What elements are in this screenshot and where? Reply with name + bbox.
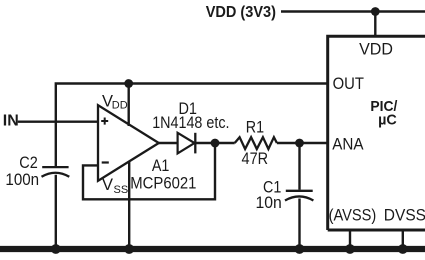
svg-text:MCP6021: MCP6021: [130, 175, 196, 193]
svg-text:V: V: [102, 176, 113, 194]
svg-text:C2: C2: [19, 154, 38, 172]
svg-text:100n: 100n: [5, 171, 39, 189]
svg-text:A1: A1: [152, 157, 170, 175]
svg-text:µC: µC: [378, 112, 397, 129]
svg-text:OUT: OUT: [333, 75, 364, 93]
svg-text:47R: 47R: [242, 150, 269, 168]
svg-text:(AVSS): (AVSS): [329, 207, 377, 225]
svg-text:1N4148 etc.: 1N4148 etc.: [152, 114, 229, 132]
svg-text:R1: R1: [246, 118, 264, 136]
svg-text:VDD (3V3): VDD (3V3): [206, 4, 276, 21]
svg-text:DD: DD: [112, 99, 128, 111]
svg-text:ANA: ANA: [332, 135, 363, 153]
svg-text:IN: IN: [3, 113, 19, 130]
svg-text:SS: SS: [114, 184, 129, 196]
svg-text:DVSS: DVSS: [384, 207, 425, 225]
svg-text:10n: 10n: [256, 194, 282, 212]
svg-text:VDD: VDD: [359, 41, 393, 59]
